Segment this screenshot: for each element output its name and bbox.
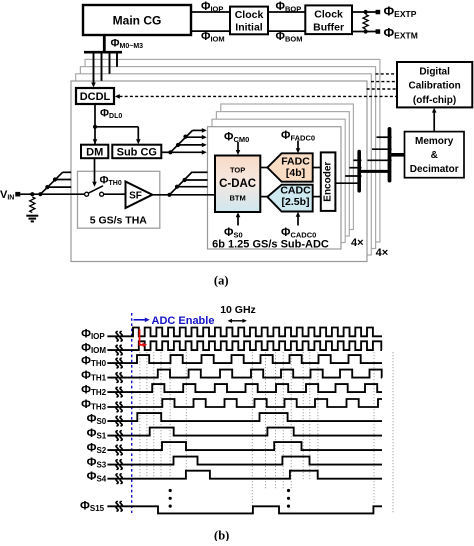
break squiggle TH0	[116, 358, 118, 368]
waveform PhiS3	[107, 457, 382, 465]
wire SF out	[152, 194, 215, 196]
dashed calib wire slice4	[376, 73, 398, 75]
ADC enable arrow	[134, 319, 147, 321]
block DCDL	[76, 88, 114, 104]
timing grid dotted lines	[139, 352, 141, 481]
slice stack layer 1 (front)	[71, 81, 367, 262]
10 GHz span arrow	[231, 320, 245, 322]
wire PhiS0	[237, 216, 239, 226]
ground	[26, 215, 38, 217]
block Sub CG	[112, 145, 161, 159]
slice bus tap 1	[368, 159, 392, 161]
svg-text:CADC: CADC	[280, 184, 311, 196]
bus tap layer2	[345, 175, 361, 177]
wire C-DAC to FADC	[260, 167, 267, 169]
pad EXTM	[376, 29, 381, 34]
svg-text:Sub CG: Sub CG	[117, 146, 157, 158]
break squiggle TH3	[116, 402, 118, 412]
svg-text:6b 1.25 GS/s Sub-ADC: 6b 1.25 GS/s Sub-ADC	[212, 238, 329, 250]
switch contact left	[85, 192, 89, 196]
pad EXTP	[376, 10, 381, 15]
svg-text:(a): (a)	[214, 274, 229, 288]
block DM	[81, 145, 108, 159]
svg-text:ADC Enable: ADC Enable	[152, 315, 215, 327]
svg-text:Buffer: Buffer	[313, 21, 344, 33]
ellipsis dots x=170.2	[169, 489, 172, 492]
VIN wire slice2	[47, 186, 71, 188]
block Digital Calibration	[397, 62, 472, 107]
waveform PhiTH1	[107, 370, 382, 378]
wire PhiBOP	[268, 11, 305, 13]
waveform PhiS15	[107, 506, 382, 513]
sub-ADC stack layer 4 (back)	[221, 104, 354, 230]
termination resistor	[363, 15, 368, 30]
break squiggle S2	[116, 445, 118, 455]
switch contact right	[100, 192, 104, 196]
svg-text:TOP: TOP	[230, 165, 245, 174]
node SF fan dot1	[175, 185, 179, 189]
clock arrow slice4	[193, 129, 203, 131]
svg-text:DCDL: DCDL	[80, 91, 111, 103]
svg-text:Initial: Initial	[235, 22, 263, 34]
svg-text:(b): (b)	[214, 529, 229, 542]
node SF fan junction	[167, 193, 171, 197]
break squiggle TH2	[116, 387, 118, 397]
VIN wire slice3	[55, 179, 71, 181]
bus wire to slice bar	[359, 170, 389, 173]
fan diagonal	[170, 130, 192, 152]
VIN fan diagonal	[40, 172, 62, 194]
switch lever	[88, 186, 103, 193]
clock arrow slice1	[170, 151, 202, 153]
break squiggle S3	[116, 460, 118, 470]
slice stack layer 4 (back)	[85, 59, 380, 242]
SF wire layer4	[192, 171, 207, 173]
arrow Memory to Digital Calibration	[433, 111, 435, 132]
clock arrow slice2	[178, 144, 202, 146]
wire C-DAC to CADC	[260, 196, 267, 198]
block Encoder	[321, 152, 336, 211]
wire PhiCM0	[237, 142, 239, 152]
waveform PhiS1	[107, 428, 382, 436]
wire Sub CG out	[161, 151, 170, 153]
node fan junction	[168, 150, 172, 154]
wire FADC to Encoder	[313, 167, 321, 169]
wire PhiFADC0	[297, 141, 299, 150]
node DL0 junction	[93, 125, 97, 129]
capacitor DAC C-DAC	[215, 156, 260, 213]
svg-text:Digital: Digital	[419, 66, 450, 77]
waveform PhiTH0	[107, 355, 382, 363]
dashed calib wire slice2	[367, 88, 397, 90]
block Clock Initial	[230, 7, 268, 35]
flash ADC FADC	[267, 153, 312, 181]
svg-text:Decimator: Decimator	[410, 164, 459, 175]
ellipsis dots x=288.5	[287, 489, 290, 492]
svg-text:10 GHz: 10 GHz	[220, 304, 256, 316]
node VIN fan dot1	[45, 185, 49, 189]
waveform PhiS2	[107, 442, 382, 450]
wire DCDL down	[94, 104, 96, 145]
svg-text:FADC: FADC	[281, 155, 310, 167]
bus bar sub-ADC	[357, 152, 361, 191]
node junction EXTM	[364, 29, 368, 33]
waveform PhiTH2	[107, 384, 382, 392]
SF fan diagonal	[169, 172, 192, 195]
block Main CG	[83, 5, 191, 35]
slice stack layer 3	[80, 67, 375, 249]
block Clock Buffer	[305, 5, 352, 34]
sub-ADC stack layer 2	[212, 119, 345, 242]
svg-text:(off-chip): (off-chip)	[413, 95, 456, 106]
THA block outline	[78, 171, 160, 228]
arrow into DM	[93, 139, 98, 144]
wire VIN	[20, 193, 84, 195]
node fan dot 2	[183, 135, 187, 139]
bus tap layer3	[349, 167, 361, 169]
svg-text:C-DAC: C-DAC	[219, 178, 256, 190]
wire to EXTM pad	[352, 31, 378, 33]
SF wire layer2	[177, 186, 208, 188]
waveform PhiS4	[107, 471, 382, 479]
svg-text:&: &	[431, 150, 438, 161]
node VIN fan dot2	[53, 177, 57, 181]
wire PhiM0 into DCDL	[93, 52, 95, 83]
svg-text:Encoder: Encoder	[323, 162, 334, 202]
svg-text:Clock: Clock	[314, 9, 343, 21]
slice bus tap 2	[372, 148, 392, 150]
node VIN fan junction	[38, 192, 42, 196]
wire PhiIOM	[191, 30, 230, 32]
break squiggle S15	[116, 502, 118, 512]
node fan dot 1	[176, 143, 180, 147]
waveform PhiS0	[107, 413, 382, 421]
svg-text:[2.5b]: [2.5b]	[281, 196, 309, 208]
break squiggle S4	[116, 474, 118, 484]
bus tap layer4	[353, 159, 361, 161]
break squiggle TH1	[116, 373, 118, 383]
buffer SF	[126, 182, 153, 209]
slice stack layer 2	[76, 74, 372, 255]
break squiggle S1	[116, 431, 118, 441]
svg-text:[4b]: [4b]	[286, 167, 305, 179]
block Memory & Decimator	[405, 132, 465, 178]
break squiggle S0	[116, 416, 118, 426]
wire PhiM1	[101, 52, 103, 81]
node VIN junction	[30, 192, 34, 196]
SF wire layer3	[185, 179, 208, 181]
arrow into Sub CG	[136, 139, 141, 144]
bus bar slices	[388, 129, 392, 181]
svg-text:DM: DM	[86, 146, 103, 158]
dashed calib wire to DCDL	[120, 95, 398, 97]
svg-text:Clock: Clock	[235, 9, 264, 21]
wire Encoder out	[335, 182, 359, 184]
svg-text:Memory: Memory	[415, 136, 454, 147]
coarse ADC CADC	[267, 185, 312, 212]
break squiggle IOM	[116, 345, 118, 355]
node SF fan dot2	[183, 178, 187, 182]
svg-text:Calibration: Calibration	[408, 81, 460, 92]
ADC enable dashed line	[131, 313, 133, 513]
dashed calib wire slice3	[371, 81, 397, 83]
wire DM to switch	[94, 158, 96, 182]
red enable arrow	[140, 329, 144, 345]
bus bar PhiM	[84, 51, 122, 54]
sub-ADC stack layer 1 (front)	[208, 127, 342, 249]
VIN wire slice4	[63, 171, 72, 173]
svg-text:Main CG: Main CG	[113, 13, 162, 27]
wire Main CG down	[103, 35, 106, 51]
svg-text:4×: 4×	[351, 237, 364, 249]
wire PhiM3	[116, 52, 118, 67]
bus wire to Memory	[390, 153, 405, 157]
svg-text:SF: SF	[129, 191, 142, 202]
input resistor	[30, 197, 35, 213]
wire PhiM2	[109, 52, 111, 74]
sub-ADC stack layer 3	[216, 112, 349, 236]
svg-text:BTM: BTM	[229, 193, 245, 202]
pad VIN	[15, 192, 20, 197]
wire PhiIOP	[191, 11, 230, 13]
wire PhiBOM	[268, 30, 305, 32]
node junction EXTP	[364, 10, 368, 14]
wire CADC to Encoder	[313, 196, 321, 198]
waveform PhiTH3	[107, 399, 382, 407]
break squiggle IOP	[116, 332, 118, 342]
wire to EXTP pad	[352, 11, 378, 13]
wire DL0 branch right	[95, 126, 138, 128]
slice bus tap 3	[377, 136, 392, 138]
wire PhiCADC0	[297, 215, 299, 225]
clock arrow slice3	[186, 136, 203, 138]
svg-text:5 GS/s THA: 5 GS/s THA	[90, 215, 148, 227]
waveform PhiIOP	[107, 328, 382, 337]
waveform PhiIOM	[107, 341, 382, 350]
svg-text:4×: 4×	[376, 247, 389, 259]
wire switch to SF	[104, 193, 126, 195]
